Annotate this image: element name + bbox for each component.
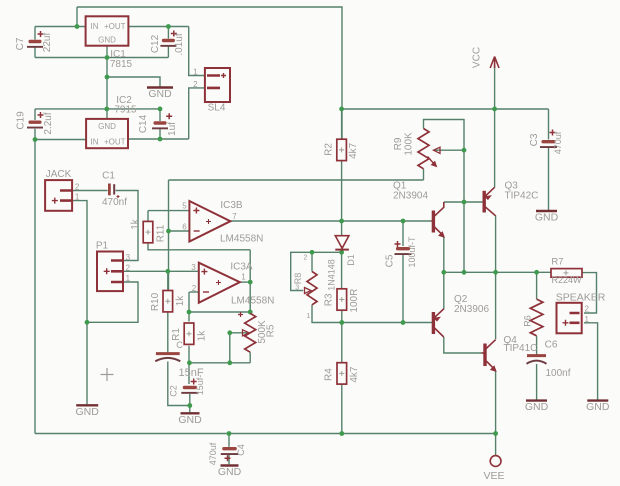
- wire IC3B output to Q1 base: [230, 220, 431, 222]
- wire VEE symbol stem: [495, 434, 497, 456]
- capacitor C3: [540, 130, 557, 149]
- node VEE at bottom rail: [493, 431, 498, 436]
- power VEE circle: [490, 456, 501, 467]
- wire Q1 collector to Q3 base: [444, 201, 483, 203]
- svg-text:SPEAKER: SPEAKER: [556, 292, 606, 304]
- wire R10 top lead: [167, 271, 169, 290]
- svg-text:IC3B: IC3B: [220, 200, 243, 211]
- svg-text:7815: 7815: [110, 59, 133, 70]
- node R9 net at output: [462, 270, 467, 275]
- svg-text:470nf: 470nf: [102, 197, 127, 208]
- svg-text:R9: R9: [393, 137, 404, 150]
- svg-text:3: 3: [126, 253, 131, 262]
- op-amp IC3B: [189, 201, 230, 242]
- svg-text:1: 1: [193, 68, 198, 77]
- svg-text:R8: R8: [293, 273, 303, 285]
- svg-text:C19: C19: [16, 111, 27, 130]
- wire R8 wiper loop: [291, 252, 312, 290]
- node Q1/Q2 emitters at output: [441, 270, 446, 275]
- svg-text:D1: D1: [346, 254, 356, 266]
- svg-text:R11: R11: [156, 224, 167, 242]
- wire R3 bottom lead: [341, 310, 343, 323]
- wire P1 pin2 to IC3A noninverting input: [123, 270, 199, 272]
- svg-text:C4: C4: [236, 444, 246, 456]
- capacitor C7: [27, 31, 44, 48]
- wire Q1 emitter to output node: [443, 237, 445, 272]
- wire R8 bottom lead: [312, 305, 342, 323]
- capacitor C12: [160, 31, 176, 47]
- ground JACK input: [76, 405, 100, 418]
- svg-text:100K: 100K: [404, 132, 415, 156]
- node R9 wiper tie: [462, 148, 467, 153]
- wire R2 bottom lead / D1 anode: [341, 160, 343, 235]
- wire R9 bottom lead: [423, 169, 425, 180]
- node R5 wiper at bottom tie: [227, 360, 232, 365]
- voltage regulator IC2 7915: [86, 119, 128, 148]
- node R10 top at input line: [165, 269, 170, 274]
- svg-text:100R: 100R: [349, 289, 360, 313]
- capacitor C4: [221, 447, 239, 461]
- wire C2 to ground: [189, 394, 191, 413]
- svg-text:GND: GND: [586, 401, 610, 413]
- node IN junction at C7: [75, 24, 80, 29]
- wire C19 top lead: [34, 109, 36, 120]
- svg-text:2: 2: [192, 284, 197, 293]
- node C14 at IC2 OUT: [158, 137, 163, 142]
- wire Q3 collector to output node: [495, 216, 497, 273]
- svg-text:1: 1: [126, 274, 131, 283]
- svg-text:2: 2: [193, 80, 198, 89]
- diode D1 1N4148: [335, 236, 349, 250]
- svg-text:3: 3: [191, 263, 196, 272]
- svg-text:2.2uf: 2.2uf: [43, 112, 54, 134]
- wire C7 bottom lead: [34, 47, 36, 58]
- wire IC3A output: [240, 281, 250, 283]
- node R8 tie at D1 cathode: [339, 250, 344, 255]
- ground C6: [525, 401, 549, 414]
- wire C19 bottom lead: [34, 129, 36, 140]
- svg-text:+OUT: +OUT: [104, 138, 126, 147]
- node feedback tie at R5 top: [248, 310, 253, 315]
- voltage regulator IC1 7815: [86, 16, 129, 45]
- svg-text:IN: IN: [91, 22, 99, 31]
- svg-text:R3: R3: [324, 293, 335, 306]
- svg-text:22uf: 22uf: [42, 33, 53, 53]
- node C4 at bottom rail: [227, 431, 232, 436]
- node R1 top: [187, 310, 192, 315]
- svg-text:470uf: 470uf: [553, 131, 563, 154]
- node R4 at bottom rail: [339, 431, 344, 436]
- wire C12 bottom lead: [167, 46, 169, 58]
- node feedback at IC3B inverting input: [166, 229, 171, 234]
- wire R1 bottom lead: [188, 346, 190, 384]
- wire C5 bottom lead: [402, 255, 404, 323]
- svg-text:7915: 7915: [114, 105, 137, 116]
- wire R2 top lead: [341, 109, 343, 139]
- wire bias vertical through IC3A output: [249, 250, 251, 314]
- node Q3 base line crossing: [462, 200, 467, 205]
- capacitor film 15nF: [155, 354, 180, 362]
- svg-text:GND: GND: [535, 212, 559, 224]
- node Q3/Q4 collectors at output: [493, 270, 498, 275]
- wire R5 bottom lead: [249, 352, 251, 363]
- svg-text:7: 7: [232, 212, 237, 221]
- wire C1 to P1 pin 3: [116, 191, 138, 261]
- wire Q4 emitter to bottom rail: [495, 371, 497, 434]
- svg-text:GND: GND: [98, 122, 116, 131]
- power VCC arrow: [490, 57, 499, 69]
- svg-text:4k7: 4k7: [348, 142, 359, 159]
- transistor Q3 TIP42C: [483, 187, 496, 216]
- wire IC1 GND pin down to IC2 GND pin: [106, 46, 108, 119]
- svg-text:C12: C12: [150, 34, 161, 53]
- wire IC1 IN net: [35, 26, 86, 28]
- node R3/R4/Q2 base: [339, 320, 344, 325]
- ground near IC1: [147, 88, 173, 101]
- svg-text:4k7: 4k7: [349, 366, 360, 383]
- node C5 bottom at Q2 base line: [401, 320, 406, 325]
- wire R9 wiper: [435, 149, 464, 151]
- connector SL4: [205, 68, 230, 102]
- ground SPEAKER: [586, 401, 610, 414]
- svg-text:C5: C5: [385, 254, 396, 267]
- wire D1 cathode to R3: [341, 250, 343, 289]
- svg-text:R6: R6: [522, 315, 532, 327]
- potentiometer R8: [305, 272, 318, 305]
- wire R4 bottom lead: [341, 384, 343, 434]
- wire IC1 OUT net: [128, 26, 188, 28]
- wire IC2 OUT net: [128, 138, 189, 140]
- svg-text:IN: IN: [91, 138, 99, 147]
- wire OUT to SL4 pin 1: [189, 27, 205, 76]
- svg-text:LM4558N: LM4558N: [220, 234, 263, 245]
- svg-text:1k: 1k: [175, 295, 186, 307]
- potentiometer R5 500K: [238, 312, 256, 352]
- resistor R1: [184, 323, 194, 344]
- wire R9 top loop down to output node: [424, 120, 465, 273]
- node P1 pin1 at ground stem: [85, 320, 90, 325]
- resistor R7: [551, 269, 582, 278]
- svg-text:100uf-T: 100uf-T: [407, 236, 417, 268]
- wire JACK pin1 to ground: [72, 201, 87, 405]
- node IC1 GND at rail: [105, 55, 110, 60]
- wire output node to Q4 collector: [495, 272, 497, 339]
- wire JACK pin2 to C1: [72, 190, 108, 192]
- op-amp IC3A: [199, 263, 240, 303]
- wire film cap to ground net: [168, 362, 190, 406]
- resistor R11: [143, 221, 153, 242]
- svg-text:R10: R10: [150, 292, 161, 311]
- transistor Q4 TIP41C: [481, 340, 496, 372]
- wire Q2 collector to Q4 base: [444, 337, 482, 353]
- wire C14 top lead: [159, 109, 161, 121]
- wire output node down to Q2 emitter: [443, 272, 445, 309]
- wire IC3A inverting input: [189, 291, 198, 293]
- svg-text:C7: C7: [15, 37, 26, 50]
- wire IC3B noninverting input: [148, 210, 189, 212]
- ground C4: [218, 466, 242, 479]
- svg-text:C: C: [176, 340, 183, 350]
- wire IC2 IN net: [35, 139, 86, 141]
- wire C14 bottom lead: [159, 128, 161, 140]
- wire VCC to Q3 emitter: [494, 109, 496, 188]
- wire R1/R5 bottom tie: [189, 362, 250, 364]
- wire R11 top lead: [147, 211, 149, 222]
- svg-text:2: 2: [75, 182, 80, 191]
- node R6 top at output: [534, 270, 539, 275]
- origin cross marker: [101, 368, 114, 381]
- capacitor C14: [152, 113, 172, 129]
- wire P1 pin1 to ground stem: [87, 282, 138, 322]
- resistor R10: [163, 291, 173, 312]
- wire R6 top lead: [536, 272, 538, 299]
- transistor Q2 2N3906: [433, 309, 444, 337]
- node R2/D1 at IC3B output line: [339, 219, 344, 224]
- capacitor C1: [108, 184, 120, 199]
- wire R10 bottom lead to film cap: [167, 312, 169, 353]
- svg-text:+OUT: +OUT: [104, 22, 126, 31]
- svg-text:470uf: 470uf: [208, 442, 218, 465]
- wire SPEAKER pin 1 to ground: [584, 323, 598, 400]
- svg-text:C1: C1: [102, 171, 115, 182]
- wire VCC symbol stem: [494, 65, 496, 109]
- svg-text:6: 6: [182, 223, 187, 232]
- wire C19/C14 positive-rail tie: [35, 108, 160, 110]
- resistor R3: [337, 289, 347, 310]
- transistor Q1 2N3904: [431, 202, 444, 237]
- capacitor C19: [27, 112, 44, 129]
- wire R5 wiper loop: [230, 333, 248, 363]
- wire VCC top border from IN node to R2/rail: [77, 7, 342, 139]
- svg-text:TIP42C: TIP42C: [505, 191, 539, 202]
- svg-text:2N3906: 2N3906: [454, 304, 489, 315]
- svg-text:C3: C3: [529, 133, 540, 146]
- wire IC2 OUT to SL4 pin 2: [189, 88, 205, 139]
- wire R7 to SPEAKER pin 2: [582, 273, 597, 313]
- svg-text:GND: GND: [148, 88, 172, 100]
- svg-text:R7: R7: [551, 257, 563, 268]
- svg-text:C6: C6: [545, 340, 558, 351]
- node C19/IC2 IN/left border: [33, 137, 38, 142]
- svg-text:1: 1: [75, 192, 80, 201]
- node R1 bottom tie: [187, 360, 192, 365]
- node film cap at C2 ground lead: [187, 403, 192, 408]
- svg-text:2: 2: [126, 263, 131, 272]
- wire C3 bottom lead to ground: [548, 148, 550, 211]
- wire bias to Q2 base: [342, 322, 433, 324]
- wire branch to ground symbol: [107, 77, 160, 87]
- resistor R2: [337, 139, 347, 160]
- svg-text:1N4148: 1N4148: [326, 259, 336, 291]
- wire C5 top lead: [402, 221, 404, 246]
- wire C3 top lead: [548, 109, 550, 140]
- node C14 top tie: [158, 107, 163, 112]
- wire top-left drop to IN net: [76, 7, 78, 27]
- wire R11 bottom to bias line: [148, 243, 250, 250]
- wire R6 bottom to C6: [536, 336, 538, 355]
- svg-text:IC3A: IC3A: [230, 262, 253, 273]
- capacitor C2: [181, 379, 198, 394]
- node C5 top at output line: [401, 219, 406, 224]
- svg-text:1: 1: [585, 315, 590, 324]
- wire left border down to bottom rail: [34, 140, 36, 434]
- svg-text:1k: 1k: [130, 218, 141, 230]
- svg-text:R5: R5: [266, 324, 277, 337]
- svg-text:GND: GND: [98, 36, 116, 45]
- svg-text:1k: 1k: [197, 330, 208, 342]
- node ground branch: [105, 75, 110, 80]
- svg-text:R1: R1: [171, 328, 182, 341]
- wire C4 bottom lead: [228, 454, 230, 465]
- svg-text:2: 2: [585, 305, 590, 314]
- resistor R6: [530, 299, 543, 336]
- svg-text:5: 5: [182, 202, 187, 211]
- svg-text:GND: GND: [76, 406, 100, 418]
- svg-text:TIP41C: TIP41C: [504, 343, 538, 354]
- node IC3A output: [248, 280, 253, 285]
- ground C2: [178, 413, 202, 426]
- wire ground rail under IC1: [35, 57, 168, 59]
- svg-text:JACK: JACK: [46, 169, 72, 180]
- svg-text:1: 1: [307, 313, 311, 320]
- wire bottom VEE rail: [35, 433, 496, 435]
- svg-text:SL4: SL4: [208, 103, 226, 114]
- node IC2 GND tie: [104, 107, 109, 112]
- resistor R4: [337, 363, 347, 384]
- svg-text:R4: R4: [324, 368, 335, 381]
- wire feedback horizontal to R9 bottom: [169, 179, 424, 181]
- wire C12 top lead: [167, 27, 169, 39]
- svg-text:3: 3: [295, 285, 299, 292]
- svg-text:1: 1: [241, 273, 246, 282]
- svg-text:GND: GND: [525, 401, 549, 413]
- svg-text:.01uf: .01uf: [174, 33, 185, 55]
- svg-text:C14: C14: [138, 114, 149, 133]
- svg-text:LM4558N: LM4558N: [231, 296, 274, 307]
- wire VCC horizontal rail: [342, 108, 549, 110]
- potentiometer R9 100K: [418, 129, 440, 169]
- svg-text:2: 2: [304, 255, 308, 262]
- svg-text:GND: GND: [178, 414, 202, 426]
- wire output node rail to R7: [444, 271, 551, 273]
- connector P1: [97, 252, 124, 292]
- svg-text:GND: GND: [218, 466, 242, 478]
- svg-text:P1: P1: [96, 241, 109, 252]
- capacitor C5: [395, 241, 412, 255]
- svg-text:1uf: 1uf: [167, 122, 178, 136]
- wire C6 to ground: [536, 364, 538, 400]
- wire inverting input down to R1: [188, 292, 190, 322]
- capacitor C6 100nf: [527, 356, 547, 364]
- ground C3: [535, 211, 559, 224]
- wire C7 top lead: [34, 27, 36, 40]
- node VCC symbol at rail: [492, 107, 497, 112]
- wire feedback tie line: [189, 311, 250, 313]
- wire C4 top lead: [228, 434, 230, 447]
- svg-text:R2: R2: [324, 143, 335, 156]
- node R5 wiper corner: [227, 330, 232, 335]
- node C12 at OUT: [166, 24, 171, 29]
- connector SPEAKER: [557, 303, 582, 334]
- svg-text:C2: C2: [168, 385, 178, 397]
- wire R8 top tie to diode net: [312, 251, 342, 253]
- connector JACK: [45, 180, 72, 211]
- wire R4 top lead: [341, 323, 343, 363]
- wire IC3B inverting input: [169, 230, 190, 232]
- wire R8 top lead: [311, 252, 313, 271]
- svg-text:2N3904: 2N3904: [393, 191, 428, 202]
- node R2 top at VCC rail: [339, 107, 344, 112]
- node R8 top: [310, 250, 315, 255]
- svg-text:VEE: VEE: [483, 470, 504, 482]
- svg-text:VCC: VCC: [472, 47, 483, 68]
- svg-text:100nf: 100nf: [545, 368, 570, 379]
- svg-text:15nF: 15nF: [179, 367, 204, 379]
- wire feedback vertical: [168, 180, 170, 291]
- svg-text:R224W: R224W: [552, 275, 583, 285]
